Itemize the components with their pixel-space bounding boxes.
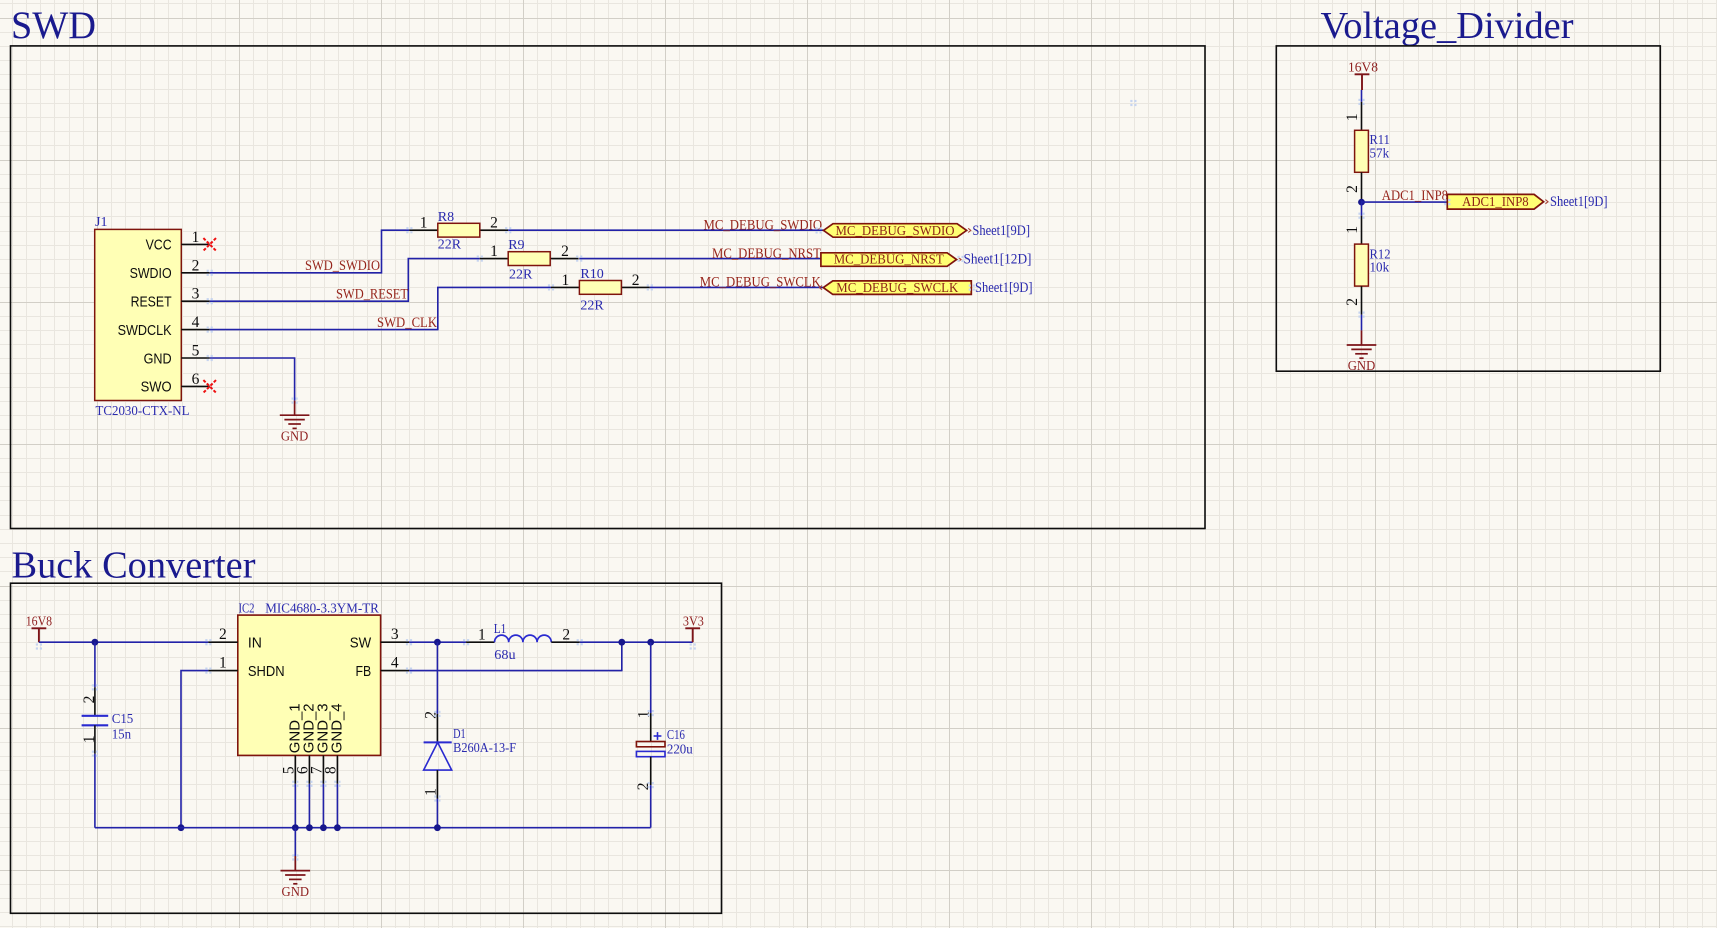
IC2 pin 8 GND_4 — [323, 703, 346, 827]
wire SHDN to ground rail — [181, 671, 208, 828]
IC2 pin 4 FB — [356, 655, 410, 680]
svg-text:2: 2 — [1344, 298, 1361, 306]
port direction arrow ADC1_INP8 — [1545, 200, 1548, 204]
svg-text:Sheet1[9D]: Sheet1[9D] — [975, 280, 1033, 296]
svg-text:4: 4 — [192, 314, 200, 331]
svg-text:2: 2 — [632, 272, 640, 289]
svg-text:2: 2 — [192, 257, 200, 274]
svg-text:MC_DEBUG_SWDIO: MC_DEBUG_SWDIO — [704, 217, 823, 233]
power symbol 3V3 — [685, 628, 700, 642]
power symbol 16V8 (buck) — [32, 628, 47, 642]
svg-text:C16: C16 — [667, 728, 685, 743]
port ADC1_INP8 — [1447, 194, 1543, 210]
svg-text:TC2030-CTX-NL: TC2030-CTX-NL — [96, 404, 190, 419]
R8 pin numbers — [420, 215, 498, 232]
resistor R11 — [1355, 102, 1369, 201]
Buck Converter section box — [11, 583, 722, 913]
svg-text:SWDCLK: SWDCLK — [118, 322, 172, 339]
svg-text:J1: J1 — [95, 215, 107, 230]
svg-text:C15: C15 — [112, 712, 134, 727]
J1 pin 3 RESET — [131, 286, 210, 311]
junction dot FB tap — [618, 639, 625, 646]
svg-text:8: 8 — [323, 766, 340, 774]
svg-text:GND: GND — [282, 885, 310, 900]
J1 pin 5 GND — [144, 343, 210, 368]
svg-text:GND: GND — [144, 350, 172, 367]
svg-text:MC_DEBUG_SWCLK: MC_DEBUG_SWCLK — [836, 281, 958, 296]
svg-text:R10: R10 — [580, 267, 603, 282]
junction node ADC1_INP8 — [1358, 199, 1365, 216]
svg-text:6: 6 — [192, 371, 200, 388]
svg-text:MC_DEBUG_NRST: MC_DEBUG_NRST — [834, 253, 944, 268]
connector J1 body — [95, 229, 182, 400]
svg-text:MIC4680-3.3YM-TR: MIC4680-3.3YM-TR — [265, 601, 379, 616]
IC2 pin 5 GND_1 — [280, 703, 303, 827]
ground rail junction dots — [292, 824, 441, 831]
svg-text:FB: FB — [356, 663, 372, 680]
wire R10 to port MC_DEBUG_SWCLK — [650, 286, 824, 288]
svg-text:Sheet1[12D]: Sheet1[12D] — [964, 252, 1032, 268]
svg-text:1: 1 — [562, 272, 570, 289]
svg-text:16V8: 16V8 — [1348, 61, 1378, 76]
no-connect X on pin 1 — [203, 238, 216, 251]
svg-text:22R: 22R — [438, 238, 462, 253]
svg-text:3: 3 — [391, 626, 399, 643]
svg-text:Buck Converter: Buck Converter — [12, 544, 256, 586]
svg-text:GND: GND — [281, 429, 309, 444]
svg-text:16V8: 16V8 — [26, 615, 52, 630]
svg-text:2: 2 — [490, 215, 498, 232]
wire 16V8 to IC2 IN — [39, 641, 209, 643]
capacitor C16 — [636, 642, 665, 828]
ground rail wire — [95, 827, 651, 829]
port MC_DEBUG_SWCLK — [823, 281, 971, 296]
connection marks buck — [36, 639, 696, 861]
svg-text:SWD_RESET: SWD_RESET — [336, 287, 408, 303]
svg-text:ADC1_INP8: ADC1_INP8 — [1382, 188, 1448, 204]
svg-text:22R: 22R — [509, 268, 533, 283]
wire RESET from J1 pin 3 to R9 — [210, 259, 480, 302]
port direction arrow — [968, 228, 971, 232]
svg-text:3V3: 3V3 — [683, 615, 704, 630]
IC2 pin 6 GND_2 — [295, 703, 318, 827]
wire 16V8 to R11 — [1361, 90, 1363, 102]
svg-text:R9: R9 — [508, 238, 524, 253]
capacitor C15 — [82, 642, 109, 828]
J1 pin 6 SWO — [141, 371, 210, 396]
svg-text:SWD_SWDIO: SWD_SWDIO — [305, 258, 380, 274]
svg-text:1: 1 — [420, 215, 428, 232]
L1 pin numbers — [478, 627, 570, 644]
svg-text:3: 3 — [192, 286, 200, 303]
IC2 pin 7 GND_3 — [309, 703, 332, 827]
svg-text:GND: GND — [1348, 359, 1376, 374]
svg-text:2: 2 — [562, 627, 570, 644]
svg-text:1: 1 — [636, 711, 653, 719]
IC2 pin 3 SW — [350, 626, 409, 651]
SWD section box — [11, 46, 1206, 529]
svg-text:Sheet1[9D]: Sheet1[9D] — [972, 223, 1030, 239]
wire R8 to port MC_DEBUG_SWDIO — [508, 229, 823, 231]
svg-text:1: 1 — [81, 736, 98, 744]
svg-text:1: 1 — [1344, 226, 1361, 234]
wire rail to ground symbol — [294, 828, 296, 856]
connection marks — [207, 100, 1137, 404]
svg-text:57k: 57k — [1370, 146, 1390, 161]
svg-text:B260A-13-F: B260A-13-F — [453, 741, 516, 756]
svg-text:SHDN: SHDN — [248, 663, 285, 680]
svg-text:SW: SW — [350, 635, 372, 652]
svg-text:1: 1 — [423, 788, 440, 796]
svg-text:220u: 220u — [667, 743, 693, 758]
resistor R10 — [551, 281, 650, 295]
IC2 pin 2 IN — [208, 626, 262, 651]
svg-text:SWDIO: SWDIO — [130, 265, 172, 282]
svg-text:MC_DEBUG_SWDIO: MC_DEBUG_SWDIO — [836, 224, 955, 239]
svg-text:SWD_CLK: SWD_CLK — [377, 315, 437, 331]
junction dot at D1 top — [434, 639, 441, 646]
wire SWDIO from J1 pin 2 to R8 — [210, 230, 410, 273]
svg-text:1: 1 — [478, 627, 486, 644]
svg-text:4: 4 — [391, 655, 399, 672]
ground symbol GND (divider) — [1347, 330, 1377, 358]
port direction arrow NRST — [958, 257, 961, 261]
port MC_DEBUG_SWDIO — [824, 224, 967, 239]
wire L1 to 3V3 — [580, 641, 693, 643]
J1 pin 2 SWDIO — [130, 257, 210, 282]
svg-text:Sheet1[9D]: Sheet1[9D] — [1550, 194, 1608, 210]
svg-text:L1: L1 — [494, 622, 507, 637]
regulator IC2 body — [238, 615, 381, 755]
svg-text:2: 2 — [1344, 185, 1361, 193]
J1 pin 4 SWDCLK — [118, 314, 210, 339]
Voltage_Divider section box — [1276, 46, 1660, 371]
C16 polarity plus — [654, 732, 662, 740]
J1 pin 1 VCC — [146, 229, 210, 254]
svg-text:Voltage_Divider: Voltage_Divider — [1321, 5, 1574, 47]
svg-text:22R: 22R — [580, 298, 604, 313]
svg-text:68u: 68u — [494, 648, 515, 663]
port MC_DEBUG_NRST — [821, 253, 957, 268]
svg-text:MC_DEBUG_SWCLK: MC_DEBUG_SWCLK — [700, 274, 821, 290]
power symbol 16V8 (divider) — [1355, 74, 1370, 90]
R9 pin numbers — [490, 243, 569, 260]
svg-text:MC_DEBUG_NRST: MC_DEBUG_NRST — [712, 246, 821, 262]
svg-text:IN: IN — [248, 635, 262, 652]
R10 pin numbers — [562, 272, 640, 289]
wire SW to L1 and diode — [409, 641, 466, 643]
svg-text:IC2: IC2 — [239, 601, 255, 616]
ground symbol GND (buck) — [281, 856, 311, 884]
svg-text:VCC: VCC — [146, 237, 172, 254]
wire FB feedback — [409, 642, 622, 670]
junction dot C16 tap — [647, 639, 654, 646]
svg-text:D1: D1 — [453, 727, 466, 742]
svg-text:1: 1 — [192, 229, 200, 246]
wire R9 to port MC_DEBUG_NRST — [579, 258, 821, 260]
svg-text:SWD: SWD — [11, 4, 96, 47]
svg-text:5: 5 — [192, 343, 200, 360]
svg-text:1: 1 — [490, 243, 498, 260]
svg-text:GND_4: GND_4 — [329, 703, 346, 753]
IC2 pin 1 SHDN — [208, 655, 284, 680]
no-connect X on pin 6 — [203, 380, 216, 393]
svg-text:10k: 10k — [1370, 261, 1390, 276]
inductor L1 — [466, 635, 580, 642]
svg-text:2: 2 — [561, 243, 569, 260]
svg-text:1: 1 — [219, 655, 227, 672]
wire node to port ADC1_INP8 — [1362, 201, 1448, 203]
wire SWCLK from J1 pin 4 to R10 — [210, 287, 551, 329]
port direction arrow SWCLK — [819, 286, 822, 290]
svg-text:RESET: RESET — [131, 294, 172, 311]
svg-text:2: 2 — [423, 711, 440, 719]
svg-text:2: 2 — [81, 696, 98, 704]
junction dot at C15 — [92, 639, 99, 646]
svg-text:2: 2 — [219, 626, 227, 643]
svg-text:SWO: SWO — [141, 379, 172, 396]
svg-text:ADC1_INP8: ADC1_INP8 — [1462, 195, 1529, 210]
junction dot SHDN rail — [178, 824, 185, 831]
wire J1 pin 5 to ground — [210, 358, 295, 401]
wire R12 to ground — [1361, 315, 1363, 331]
resistor R9 — [480, 252, 579, 266]
connection marks divider — [1358, 99, 1450, 318]
resistor R8 — [409, 223, 508, 237]
svg-text:15n: 15n — [112, 727, 131, 742]
resistor R12 — [1355, 216, 1369, 315]
svg-text:R8: R8 — [438, 210, 454, 225]
diode D1 — [424, 642, 452, 828]
ground symbol GND (SWD) — [280, 401, 310, 429]
svg-text:1: 1 — [1344, 113, 1361, 121]
